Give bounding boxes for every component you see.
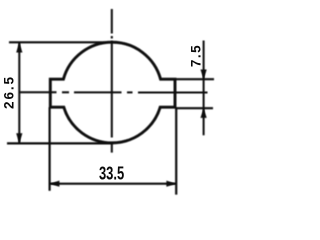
arrow 33.5 right <box>166 181 176 187</box>
7.5 extension line bottom <box>175 107 213 109</box>
arrow 26.5 top (up) <box>16 42 22 52</box>
label 26.5 (rotated) <box>3 70 15 113</box>
horizontal centerline (dash-dot) <box>20 91 208 93</box>
26.5 extension line top <box>9 41 113 43</box>
arrow 26.5 bottom (down) <box>16 133 22 143</box>
26.5 extension line bottom <box>7 142 113 144</box>
7.5 dimension line <box>203 41 205 136</box>
vertical centerline (dash-dot) <box>111 9 113 153</box>
label 7.5 (rotated) <box>191 40 202 70</box>
part outline: circle with side tabs (union) <box>50 42 175 143</box>
arrow 7.5 bottom (up, below line) <box>201 108 207 118</box>
26.5 dimension line <box>18 42 20 143</box>
33.5 extension line left <box>48 107 50 191</box>
arrow 7.5 top (down, above line) <box>201 70 207 80</box>
label 33.5 <box>99 167 124 182</box>
33.5 extension line right <box>175 107 177 194</box>
arrow 33.5 left <box>50 181 60 187</box>
33.5 dimension line <box>50 183 177 185</box>
7.5 extension line top <box>175 78 214 80</box>
